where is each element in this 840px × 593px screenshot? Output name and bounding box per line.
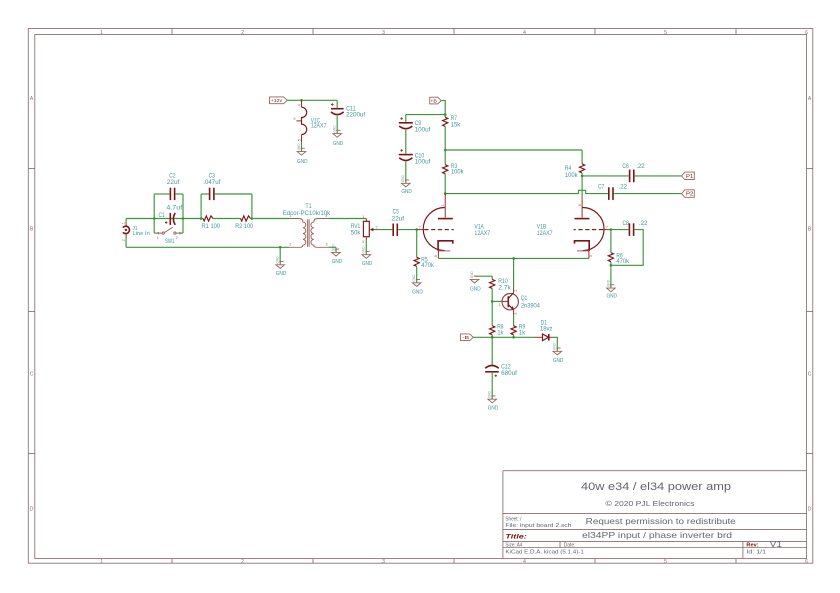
- node junction C-loop right: [182, 217, 185, 220]
- svg-text:2: 2: [176, 236, 178, 240]
- wire R8 top from base junction: [491, 301, 493, 325]
- svg-text:GND: GND: [606, 294, 617, 300]
- transistor Q1: [502, 287, 518, 315]
- svg-text:100uf: 100uf: [415, 126, 431, 133]
- wire ground stub: [279, 247, 281, 264]
- svg-text:3: 3: [325, 243, 327, 247]
- svg-text:el34PP input / phase inverter: el34PP input / phase inverter brd: [582, 531, 733, 540]
- wire C6 to P1: [635, 175, 682, 177]
- wire common cathode: [438, 257, 589, 259]
- svg-text:6: 6: [578, 204, 582, 206]
- wire R5 bottom to gnd: [416, 266, 418, 282]
- capacitor C2: [170, 188, 174, 200]
- svg-text:GND: GND: [470, 286, 481, 292]
- frame column numbers bottom: [100, 559, 808, 565]
- svg-text:3: 3: [514, 313, 518, 315]
- ground symbol at C10: [401, 174, 410, 186]
- ground symbol at T1 primary: [276, 256, 285, 268]
- svg-text:9: 9: [293, 117, 295, 121]
- ground symbol at T1 secondary: [331, 244, 340, 256]
- wire C12 top from junction: [491, 337, 493, 365]
- svg-text:.22: .22: [636, 163, 645, 170]
- svg-text:470k: 470k: [421, 262, 434, 269]
- wire SW loop left stub: [154, 232, 158, 234]
- svg-text:3: 3: [589, 255, 593, 257]
- C1 plus sign: [165, 221, 167, 223]
- wire R6 junction to gnd: [610, 265, 612, 288]
- wire cathode junction to Q1 collector: [513, 258, 515, 287]
- connector J1: [123, 223, 130, 238]
- node junction V1B grid: [610, 228, 613, 231]
- svg-text:.22: .22: [619, 183, 628, 190]
- wire V1C bottom to gnd: [301, 142, 303, 151]
- wire SW loop right stub: [180, 232, 183, 234]
- svg-text:7: 7: [419, 225, 421, 229]
- wire C3 loop top right: [215, 193, 252, 195]
- wire T1 secondary top to RV1: [329, 218, 367, 220]
- svg-text:12AX7: 12AX7: [474, 230, 490, 237]
- wire SW loop left vertical: [153, 219, 155, 234]
- frame row letters left: [30, 96, 34, 513]
- wire R2 to T1: [252, 218, 289, 220]
- resistor R4: [580, 164, 585, 173]
- svg-text:V1: V1: [770, 540, 783, 549]
- svg-text:Rev:: Rev:: [746, 543, 758, 549]
- C12 plus sign: [495, 375, 497, 377]
- svg-text:4: 4: [523, 559, 526, 565]
- wire J1 top to main line: [125, 219, 127, 223]
- resistor R9: [511, 326, 516, 335]
- capacitor C7: [609, 187, 613, 200]
- svg-text:2: 2: [289, 243, 291, 247]
- svg-text:2n3904: 2n3904: [521, 302, 540, 309]
- ground symbol at V1C: [297, 143, 306, 155]
- svg-text:Line In: Line In: [133, 231, 151, 237]
- svg-text:© 2020 PJL Electronics: © 2020 PJL Electronics: [606, 499, 695, 508]
- svg-text:C6: C6: [622, 163, 629, 170]
- svg-text:3: 3: [382, 559, 385, 565]
- svg-text:8: 8: [434, 255, 438, 257]
- capacitor C8: [629, 223, 633, 236]
- ground symbol at C12: [488, 390, 497, 402]
- node junction R8 bottom: [491, 336, 494, 339]
- node junction anode feed: [444, 149, 447, 152]
- svg-text:P1: P1: [686, 174, 694, 180]
- wire C9 top stub: [405, 115, 407, 122]
- svg-text:C: C: [30, 372, 34, 378]
- frame column numbers top: [100, 30, 808, 36]
- svg-text:GND: GND: [412, 289, 423, 295]
- svg-text:2: 2: [241, 30, 244, 36]
- global label P1: [682, 172, 695, 180]
- svg-text:C1: C1: [159, 212, 166, 219]
- wire C3 loop left vertical: [200, 194, 202, 219]
- svg-text:Q1: Q1: [521, 295, 528, 302]
- wire C11 bottom to gnd: [336, 116, 338, 134]
- svg-text:+B: +B: [430, 99, 437, 104]
- wire R8 bottom stub: [491, 335, 493, 338]
- wire V1B grid down to R6: [610, 230, 612, 253]
- switch SW1: [158, 227, 180, 234]
- svg-text:P2: P2: [686, 192, 694, 198]
- svg-text:680uf: 680uf: [501, 370, 517, 377]
- svg-text:2: 2: [121, 239, 125, 241]
- svg-text:4: 4: [523, 30, 526, 36]
- node junction V1A grid: [415, 228, 418, 231]
- wire R4 junction to V1B anode: [581, 176, 583, 198]
- resistor R2: [241, 216, 251, 221]
- capacitor C6: [630, 170, 634, 183]
- svg-text:1: 1: [100, 30, 103, 36]
- svg-text:-B: -B: [462, 335, 469, 340]
- svg-text:SW1: SW1: [165, 238, 175, 245]
- node junction B+ top: [444, 113, 447, 116]
- svg-text:470k: 470k: [616, 258, 629, 265]
- wire grid junction down to R5: [416, 230, 418, 258]
- svg-text:15k: 15k: [451, 121, 461, 128]
- ground symbol at R5: [412, 274, 421, 286]
- wire -B rail: [473, 336, 534, 338]
- wire T1 secondary bottom stub: [329, 246, 336, 248]
- svg-text:2: 2: [241, 559, 244, 565]
- svg-text:1: 1: [157, 236, 159, 240]
- svg-text:6: 6: [805, 30, 808, 36]
- svg-text:R1 100: R1 100: [202, 223, 221, 230]
- svg-text:1: 1: [499, 303, 501, 307]
- ground symbol at R6: [606, 279, 615, 291]
- transformer T1 core: [308, 219, 310, 246]
- svg-text:File: input board 2.sch: File: input board 2.sch: [505, 523, 571, 529]
- svg-text:GND: GND: [488, 405, 499, 411]
- node junction heater top: [300, 99, 303, 102]
- wire R3 top stub: [444, 150, 446, 165]
- wire V1B grid to C8: [611, 229, 629, 231]
- svg-text:Edcor-PC10k/10k: Edcor-PC10k/10k: [283, 210, 331, 217]
- svg-text:50k: 50k: [351, 230, 361, 237]
- wire RV1 wiper to C5: [374, 229, 392, 231]
- wire R9 bottom stub: [513, 335, 515, 338]
- node junction R6 bottom: [610, 264, 613, 267]
- svg-text:1k: 1k: [519, 329, 526, 336]
- power flag -B: [460, 334, 473, 341]
- svg-text:2: 2: [514, 290, 518, 292]
- svg-text:R2 100: R2 100: [235, 223, 253, 230]
- svg-text:1: 1: [121, 222, 125, 224]
- svg-text:4.7uf: 4.7uf: [166, 204, 182, 211]
- resistor R8: [490, 326, 495, 335]
- ground symbol left of R10: [470, 271, 479, 283]
- wire R4 top stub: [581, 150, 583, 164]
- capacitor C12 polarized: [485, 366, 499, 372]
- svg-text:GND: GND: [401, 189, 412, 195]
- wire C10 to gnd: [405, 162, 407, 184]
- node junction C-loop left: [153, 217, 156, 220]
- svg-text:40w e34 / el34 power amp: 40w e34 / el34 power amp: [581, 481, 731, 493]
- node junction R4 bottom: [581, 175, 584, 178]
- wire Q1 emitter to R9: [513, 315, 515, 326]
- svg-text:18vz: 18vz: [540, 325, 553, 332]
- svg-text:2200uf: 2200uf: [346, 112, 365, 119]
- transformer T1 secondary winding: [311, 219, 329, 248]
- svg-text:22uf: 22uf: [167, 179, 180, 186]
- svg-text:.047uf: .047uf: [203, 179, 220, 186]
- tube heater V1C: [296, 100, 306, 142]
- ground symbol at D1: [553, 342, 562, 354]
- svg-text:5: 5: [297, 139, 301, 141]
- wire R10 gnd arm: [475, 275, 493, 277]
- svg-text:100k: 100k: [451, 169, 464, 176]
- triode V1B: [574, 198, 611, 258]
- node junction R2 right: [251, 217, 254, 220]
- capacitor C1 polarized: [170, 213, 175, 225]
- capacitor C9 polarized: [399, 123, 413, 129]
- wire C2 loop right vertical: [182, 194, 184, 219]
- svg-text:1: 1: [362, 215, 364, 219]
- potentiometer RV1: [363, 219, 374, 241]
- svg-text:100k: 100k: [565, 172, 578, 179]
- node junction Q1 base: [491, 300, 494, 303]
- title block outline: [503, 471, 807, 559]
- svg-text:C: C: [808, 372, 812, 378]
- wire base junction to Q1: [492, 300, 503, 302]
- wire R1 to R2: [213, 218, 241, 220]
- svg-text:GND: GND: [332, 259, 343, 265]
- wire junction to C11: [302, 99, 338, 101]
- svg-text:D: D: [30, 507, 34, 513]
- wire D1 to gnd corner: [553, 337, 558, 351]
- wire J1 bottom vertical: [125, 238, 127, 248]
- capacitor C3: [210, 188, 214, 200]
- wire C9 to C10: [405, 130, 407, 154]
- wire C2 loop top left: [154, 193, 169, 195]
- wire C2 loop top right: [175, 193, 183, 195]
- svg-text:Date:: Date:: [564, 543, 576, 549]
- wire R7 top stub: [444, 115, 446, 118]
- global label P2: [682, 190, 695, 198]
- capacitor C10 polarized: [399, 155, 413, 161]
- wire anode row with hop to C7: [445, 190, 608, 193]
- wire R7 bottom to junction: [444, 126, 446, 150]
- wire bottom return line: [126, 246, 289, 248]
- wire C3 loop top left: [201, 193, 209, 195]
- wire cross feed to R4: [445, 149, 582, 151]
- wire R4 bottom stub: [581, 173, 583, 176]
- svg-text:KiCad E.D.A. kicad (5.1.4)-1: KiCad E.D.A. kicad (5.1.4)-1: [505, 549, 584, 555]
- svg-text:GND: GND: [276, 271, 287, 277]
- svg-text:2.7k: 2.7k: [498, 285, 511, 292]
- resistor R10: [490, 279, 495, 288]
- svg-text:GND: GND: [553, 358, 564, 364]
- resistor R1: [203, 216, 213, 221]
- power flag +B: [430, 97, 442, 104]
- resistor R5: [414, 257, 419, 266]
- svg-text:1: 1: [100, 559, 103, 565]
- svg-text:GND: GND: [297, 159, 308, 165]
- wire junction to C9: [406, 114, 445, 116]
- wire secondary gnd stub: [335, 247, 337, 252]
- svg-text:+12v: +12v: [271, 98, 283, 103]
- wire SW loop right vertical: [182, 219, 184, 234]
- wire C11 top stub: [336, 100, 338, 108]
- C9 plus sign: [400, 117, 402, 119]
- resistor R7: [443, 117, 448, 126]
- svg-text:5: 5: [664, 30, 667, 36]
- wire R6 bottom stub: [610, 262, 612, 266]
- wire C8 right loop: [611, 230, 643, 266]
- wire R10 top stub: [491, 276, 493, 279]
- svg-text:3: 3: [382, 30, 385, 36]
- svg-text:D: D: [808, 507, 812, 513]
- C10 plus sign: [400, 149, 402, 151]
- svg-text:4: 4: [297, 104, 301, 106]
- svg-text:100uf: 100uf: [415, 159, 431, 166]
- wire RV1 bottom to gnd: [365, 240, 367, 255]
- svg-text:6: 6: [805, 559, 808, 565]
- svg-text:Request permission to redistri: Request permission to redistribute: [586, 517, 737, 526]
- node junction R1 left: [200, 217, 203, 220]
- ground symbol at RV1: [362, 246, 371, 258]
- resistor R6: [608, 253, 613, 262]
- ground symbol at C11: [333, 125, 342, 137]
- wire C7 to P2: [614, 193, 682, 195]
- svg-text:Id: 1/1: Id: 1/1: [746, 549, 766, 555]
- transformer T1 primary winding: [289, 219, 306, 248]
- node junction R9 bottom: [512, 336, 515, 339]
- node junction ground tap: [279, 246, 282, 249]
- svg-text:12AX7: 12AX7: [537, 230, 553, 237]
- C11 plus sign: [331, 103, 333, 105]
- svg-text:Size: A4: Size: A4: [505, 543, 522, 549]
- svg-text:7: 7: [606, 225, 608, 229]
- wire C12 bottom to gnd: [491, 372, 493, 399]
- wire R3 bottom stub: [444, 174, 446, 194]
- capacitor C5: [393, 224, 397, 237]
- svg-text:12AX7: 12AX7: [311, 123, 327, 130]
- svg-text:.22: .22: [639, 220, 648, 227]
- svg-text:C8: C8: [623, 220, 630, 227]
- svg-text:.22uf: .22uf: [390, 215, 404, 222]
- resistor R3: [443, 165, 448, 174]
- svg-text:1: 1: [441, 204, 445, 206]
- power flag +12v: [270, 97, 288, 104]
- wire C2 loop left vertical: [153, 194, 155, 219]
- diode D1 zener: [535, 334, 553, 341]
- node junction V1A anode: [444, 192, 447, 195]
- triode V1A: [417, 194, 454, 259]
- wire main input line: [126, 218, 203, 220]
- svg-text:Sheet: /: Sheet: /: [505, 517, 521, 523]
- svg-text:2: 2: [376, 225, 378, 229]
- svg-text:Title:: Title:: [505, 533, 526, 540]
- wire C5 to V1A grid: [398, 229, 417, 231]
- capacitor C11 polarized: [331, 109, 344, 115]
- frame row letters right: [808, 96, 812, 513]
- svg-text:C7: C7: [598, 183, 605, 190]
- svg-text:1k: 1k: [497, 329, 504, 336]
- wire +B to column: [441, 101, 445, 115]
- wire R4 junction to C6: [582, 175, 629, 177]
- node junction cathode tail: [512, 257, 515, 260]
- wire +12v to junction: [287, 99, 301, 101]
- svg-text:GND: GND: [362, 261, 373, 267]
- svg-text:GND: GND: [333, 141, 344, 147]
- wire R10 bottom to base junction: [491, 289, 493, 302]
- svg-text:3: 3: [362, 240, 364, 244]
- svg-text:5: 5: [664, 559, 667, 565]
- wire C3 loop right vertical: [251, 194, 253, 219]
